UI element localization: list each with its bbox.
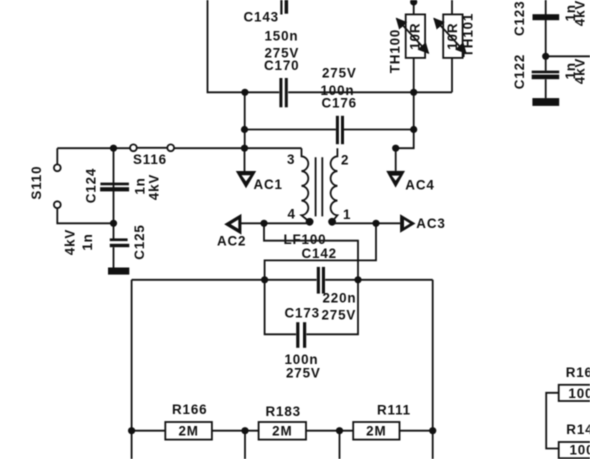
capacitor C173 xyxy=(296,322,306,348)
resistor R183 xyxy=(259,422,306,440)
node pin 1 xyxy=(328,218,336,226)
capacitor C123 xyxy=(533,14,560,20)
transformer LF100 left winding xyxy=(302,148,309,221)
svg-text:R111: R111 xyxy=(377,403,411,418)
svg-text:R166: R166 xyxy=(172,402,207,417)
terminal AC2 xyxy=(224,214,241,235)
svg-text:10R: 10R xyxy=(407,23,422,50)
svg-text:10R: 10R xyxy=(445,23,460,50)
wire row stems xyxy=(245,431,340,459)
svg-text:4kV: 4kV xyxy=(573,58,588,84)
wire pin4 net down to C142 left node xyxy=(264,223,358,279)
transformer LF100 right winding xyxy=(331,148,338,221)
svg-text:275V: 275V xyxy=(286,366,321,381)
capacitor C124 xyxy=(100,183,129,192)
node junction C176-left xyxy=(241,126,248,133)
wire AC2 to pin 4 xyxy=(241,222,307,224)
wire bracket R168/R148 xyxy=(546,393,559,449)
svg-text:2M: 2M xyxy=(178,423,198,438)
svg-text:1n: 1n xyxy=(80,233,95,250)
node row dot 2 xyxy=(241,427,248,434)
wire pin 1 to AC3 xyxy=(335,222,400,224)
wire left vertical bus xyxy=(244,92,246,148)
svg-text:LF100: LF100 xyxy=(284,232,327,247)
thermistor TH100 xyxy=(406,14,425,58)
node junction AC2 net xyxy=(260,220,267,227)
ground chassis C125 xyxy=(108,268,129,275)
wire AC4 stem xyxy=(395,148,397,171)
svg-text:AC4: AC4 xyxy=(405,178,434,193)
wire strike over LF100 (part of pin4 net) xyxy=(264,240,358,242)
svg-text:C125: C125 xyxy=(132,224,147,259)
node row dot 4 xyxy=(429,427,436,434)
wire C142 net xyxy=(132,279,433,281)
svg-text:2M: 2M xyxy=(366,424,386,439)
svg-text:220n: 220n xyxy=(323,290,357,305)
node junction C170-left xyxy=(241,89,248,96)
capacitor C142 xyxy=(317,267,325,294)
svg-text:2M: 2M xyxy=(272,424,292,439)
svg-text:AC2: AC2 xyxy=(217,234,246,249)
svg-text:R183: R183 xyxy=(266,404,301,419)
thermistor TH100 arrow xyxy=(397,19,429,54)
svg-text:C143: C143 xyxy=(244,10,279,25)
svg-text:TH101: TH101 xyxy=(461,13,476,57)
transformer LF100 core xyxy=(316,157,323,216)
switch S110 xyxy=(57,148,113,223)
svg-text:4kV: 4kV xyxy=(63,229,78,255)
capacitor C176 xyxy=(336,116,344,144)
wire C124 branch xyxy=(113,148,115,238)
svg-text:2: 2 xyxy=(341,152,349,167)
resistor R166 xyxy=(165,422,212,440)
wire TH101 stems xyxy=(451,0,453,92)
svg-text:4kV: 4kV xyxy=(147,174,162,200)
wire C122 net right xyxy=(546,55,590,57)
capacitor C143 plates xyxy=(280,0,288,15)
resistor R148 (clipped) xyxy=(559,442,590,458)
svg-text:TH100: TH100 xyxy=(388,29,403,73)
svg-text:3: 3 xyxy=(287,152,295,167)
switch S116 xyxy=(137,147,168,149)
wire TH100 stem xyxy=(413,2,415,130)
node TH100 top xyxy=(410,0,417,6)
svg-text:1n: 1n xyxy=(133,177,148,194)
svg-text:AC3: AC3 xyxy=(416,216,445,231)
svg-text:C142: C142 xyxy=(302,246,337,261)
node row dot 3 xyxy=(336,427,343,434)
node junction S116 net xyxy=(241,145,248,152)
node junction C142 right xyxy=(354,276,361,283)
svg-text:100k: 100k xyxy=(568,386,590,401)
svg-text:S116: S116 xyxy=(133,152,167,167)
wire C123/C122 chain xyxy=(545,0,547,98)
node junction AC3 net xyxy=(372,220,379,227)
svg-text:C124: C124 xyxy=(84,168,99,203)
terminal AC4 xyxy=(386,171,405,188)
svg-text:150n: 150n xyxy=(265,29,299,44)
svg-text:AC1: AC1 xyxy=(254,177,283,192)
wire resistor row xyxy=(132,430,433,432)
svg-text:275V: 275V xyxy=(322,66,357,81)
wire corner to AC4 node xyxy=(396,130,414,149)
svg-text:S110: S110 xyxy=(29,166,44,200)
wire C173 box xyxy=(265,280,358,335)
node junction C176-right xyxy=(410,126,417,133)
svg-text:275V: 275V xyxy=(322,307,357,322)
wire left outer vertical xyxy=(131,280,133,459)
wire C176 net xyxy=(245,129,414,131)
resistor R168 (clipped) xyxy=(559,385,590,401)
node junction TH100 bottom xyxy=(410,89,417,96)
wire pin1 net down to C142 right node xyxy=(265,223,376,279)
node junction AC4 xyxy=(392,145,399,152)
terminal AC3 xyxy=(400,214,415,233)
thermistor TH101 xyxy=(443,14,462,58)
svg-text:C123: C123 xyxy=(512,1,527,36)
svg-text:4: 4 xyxy=(288,207,296,222)
node pin 4 xyxy=(306,218,314,226)
wire S116 net xyxy=(57,147,301,149)
svg-text:1: 1 xyxy=(343,207,351,222)
wire C125 to chassis xyxy=(113,247,115,267)
capacitor C170 xyxy=(279,78,287,107)
node junction C124 top xyxy=(110,145,117,152)
svg-text:100k: 100k xyxy=(570,442,590,457)
thermistor TH101 arrow xyxy=(434,19,466,54)
capacitor C122 xyxy=(532,71,560,80)
wire C170 net right segment xyxy=(288,91,452,93)
svg-text:R148: R148 xyxy=(566,422,590,437)
ground chassis C122 xyxy=(532,98,559,106)
terminal AC1 xyxy=(236,171,256,188)
node junction C122 xyxy=(542,53,549,60)
resistor R111 xyxy=(353,422,399,440)
wire right outer vertical xyxy=(432,280,434,459)
capacitor C125 xyxy=(110,238,130,247)
svg-text:C122: C122 xyxy=(512,54,527,89)
svg-text:C173: C173 xyxy=(285,305,320,320)
wire top-left vertical to C170 net xyxy=(208,0,280,92)
node junction C142 left xyxy=(261,276,268,283)
svg-text:C170: C170 xyxy=(264,58,299,73)
node junction C124/C125 xyxy=(110,220,117,227)
wire AC1 stem xyxy=(244,148,246,171)
node row dot 1 xyxy=(128,427,135,434)
svg-text:4kV: 4kV xyxy=(573,0,588,26)
svg-text:R168: R168 xyxy=(566,365,590,380)
svg-text:C176: C176 xyxy=(322,96,357,111)
